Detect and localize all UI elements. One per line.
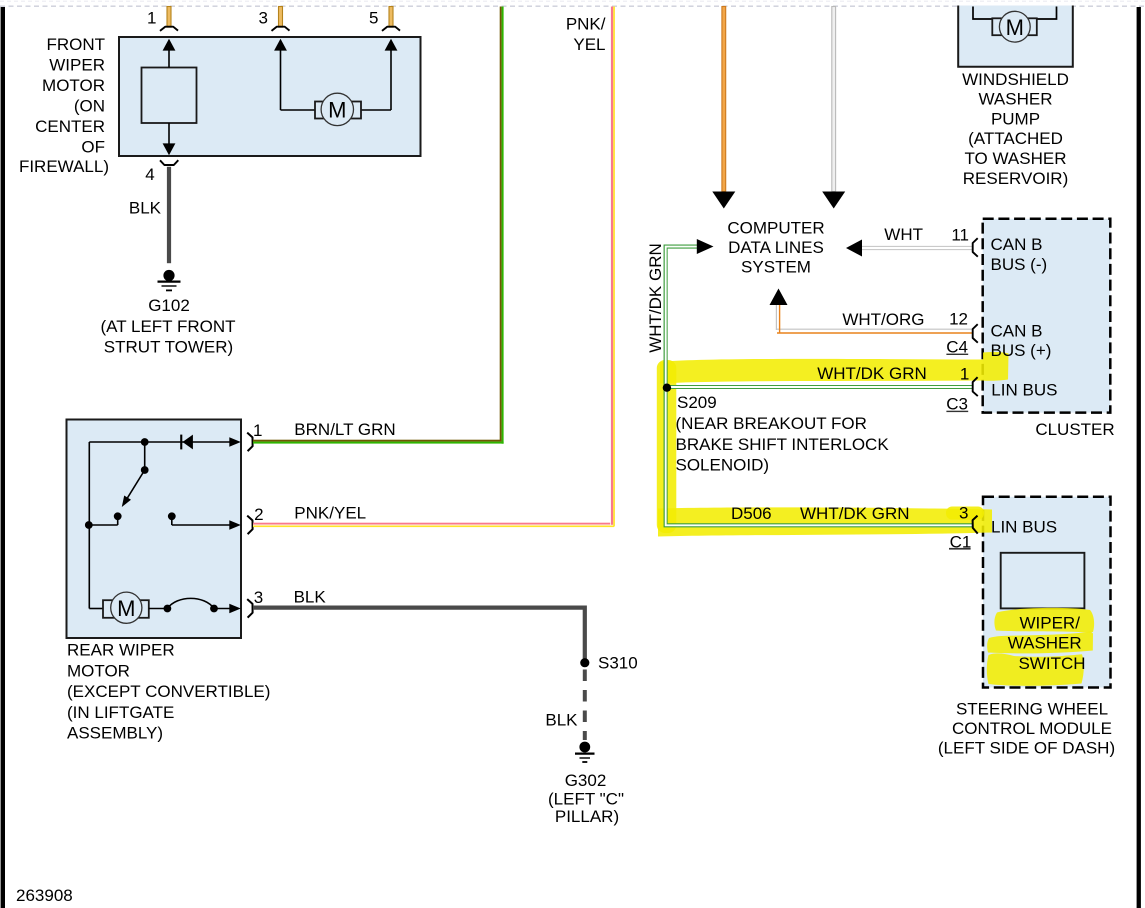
- svg-text:(LEFT SIDE OF DASH): (LEFT SIDE OF DASH): [938, 739, 1115, 758]
- svg-text:WIPER: WIPER: [49, 56, 105, 75]
- svg-text:WHT/DK GRN: WHT/DK GRN: [817, 364, 927, 383]
- svg-text:LIN BUS: LIN BUS: [991, 381, 1057, 400]
- svg-text:3: 3: [254, 588, 263, 607]
- svg-text:(LEFT "C": (LEFT "C": [548, 790, 624, 809]
- svg-text:SOLENOID): SOLENOID): [676, 455, 770, 474]
- svg-text:CENTER: CENTER: [35, 117, 105, 136]
- svg-text:C4: C4: [946, 337, 968, 356]
- svg-text:WHT/DK GRN: WHT/DK GRN: [646, 243, 665, 353]
- svg-text:MOTOR: MOTOR: [42, 76, 105, 95]
- svg-text:3: 3: [959, 504, 968, 523]
- svg-text:WHT: WHT: [884, 225, 923, 244]
- svg-text:WASHER: WASHER: [979, 90, 1053, 109]
- svg-text:4: 4: [145, 165, 154, 184]
- svg-text:(IN LIFTGATE: (IN LIFTGATE: [67, 703, 174, 722]
- svg-text:SWITCH: SWITCH: [1018, 654, 1085, 673]
- svg-text:(ON: (ON: [74, 97, 105, 116]
- svg-text:CAN B: CAN B: [991, 235, 1043, 254]
- svg-text:WINDSHIELD: WINDSHIELD: [962, 70, 1069, 89]
- svg-text:G302: G302: [565, 771, 607, 790]
- svg-text:BRN/LT GRN: BRN/LT GRN: [294, 420, 395, 439]
- svg-text:BUS (-): BUS (-): [991, 255, 1048, 274]
- svg-text:12: 12: [949, 310, 968, 329]
- svg-text:TO WASHER: TO WASHER: [964, 149, 1066, 168]
- svg-text:11: 11: [951, 226, 969, 245]
- svg-text:G102: G102: [148, 296, 190, 315]
- svg-text:CLUSTER: CLUSTER: [1035, 420, 1114, 439]
- svg-text:BLK: BLK: [545, 711, 578, 730]
- svg-text:2: 2: [254, 505, 263, 524]
- svg-text:COMPUTER: COMPUTER: [727, 219, 824, 238]
- svg-text:PILLAR): PILLAR): [555, 807, 619, 826]
- svg-text:(EXCEPT CONVERTIBLE): (EXCEPT CONVERTIBLE): [67, 682, 270, 701]
- svg-text:PNK/: PNK/: [566, 15, 606, 34]
- svg-text:DATA LINES: DATA LINES: [728, 238, 824, 257]
- svg-text:WHT/ORG: WHT/ORG: [842, 310, 924, 329]
- svg-text:REAR WIPER: REAR WIPER: [67, 641, 175, 660]
- svg-text:M: M: [1006, 15, 1024, 40]
- svg-text:WASHER: WASHER: [1008, 633, 1082, 652]
- svg-text:CONTROL MODULE: CONTROL MODULE: [952, 719, 1112, 738]
- svg-text:M: M: [117, 596, 135, 621]
- svg-text:D506: D506: [731, 504, 772, 523]
- svg-text:CAN B: CAN B: [991, 321, 1043, 340]
- svg-text:S209: S209: [677, 393, 717, 412]
- svg-text:SYSTEM: SYSTEM: [741, 258, 811, 277]
- svg-text:PNK/YEL: PNK/YEL: [294, 504, 366, 523]
- svg-text:FRONT: FRONT: [46, 35, 105, 54]
- svg-text:OF: OF: [81, 138, 105, 157]
- svg-text:BLK: BLK: [129, 199, 162, 218]
- svg-text:263908: 263908: [16, 886, 73, 905]
- svg-text:WHT/DK GRN: WHT/DK GRN: [800, 504, 910, 523]
- svg-text:BUS (+): BUS (+): [991, 341, 1052, 360]
- svg-text:FIREWALL): FIREWALL): [19, 157, 109, 176]
- svg-text:1: 1: [147, 9, 156, 28]
- svg-text:MOTOR: MOTOR: [67, 661, 130, 680]
- svg-text:C3: C3: [946, 394, 968, 413]
- svg-text:STEERING WHEEL: STEERING WHEEL: [956, 700, 1108, 719]
- svg-text:S310: S310: [598, 654, 638, 673]
- svg-text:PUMP: PUMP: [991, 109, 1040, 128]
- svg-text:M: M: [328, 98, 346, 123]
- svg-text:1: 1: [253, 421, 262, 440]
- svg-text:BRAKE SHIFT INTERLOCK: BRAKE SHIFT INTERLOCK: [676, 435, 890, 454]
- svg-text:STRUT TOWER): STRUT TOWER): [104, 338, 233, 357]
- svg-text:WIPER/: WIPER/: [1019, 614, 1080, 633]
- svg-text:LIN BUS: LIN BUS: [991, 518, 1057, 537]
- svg-text:(NEAR BREAKOUT FOR: (NEAR BREAKOUT FOR: [676, 414, 867, 433]
- svg-text:3: 3: [259, 9, 268, 28]
- svg-text:YEL: YEL: [573, 35, 605, 54]
- svg-text:ASSEMBLY): ASSEMBLY): [67, 724, 163, 743]
- svg-text:RESERVOIR): RESERVOIR): [963, 169, 1069, 188]
- svg-text:(AT LEFT FRONT: (AT LEFT FRONT: [100, 317, 235, 336]
- svg-text:1: 1: [960, 365, 969, 384]
- svg-text:5: 5: [369, 9, 378, 28]
- svg-text:BLK: BLK: [294, 588, 327, 607]
- svg-text:(ATTACHED: (ATTACHED: [968, 129, 1063, 148]
